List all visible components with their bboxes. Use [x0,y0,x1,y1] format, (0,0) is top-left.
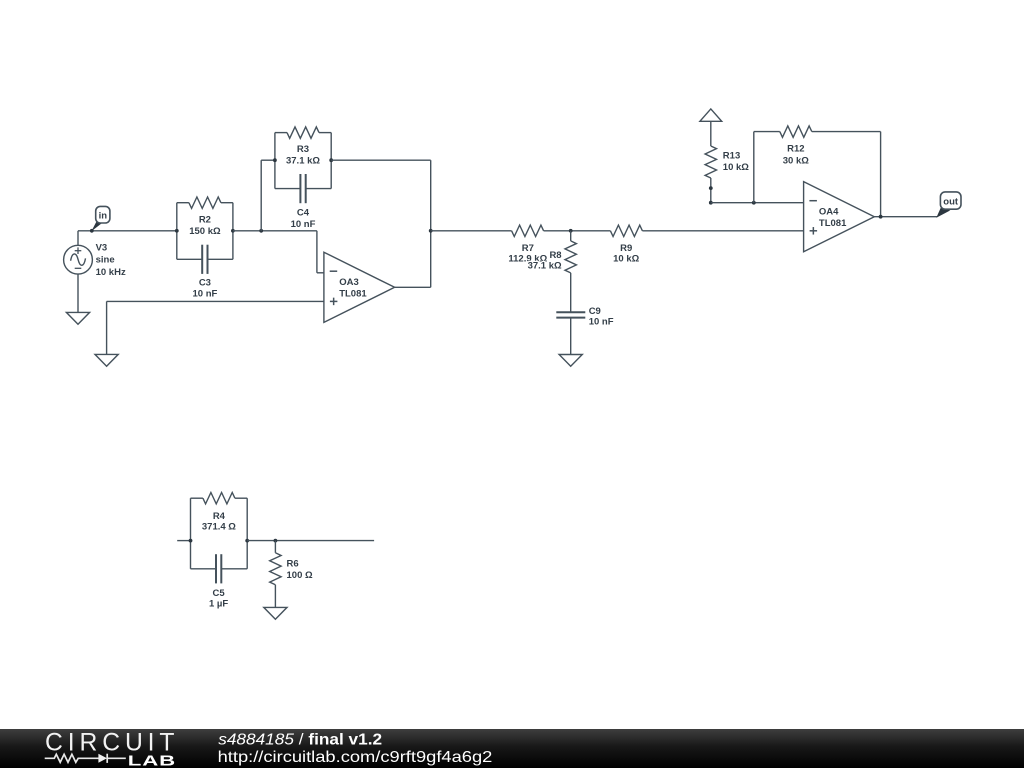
svg-text:out: out [943,196,959,207]
resistor R8 [565,231,576,312]
junction [709,201,713,205]
ground [95,354,118,366]
junction [329,158,333,162]
svg-text:10 kHz: 10 kHz [96,267,126,278]
wire [711,202,804,204]
svg-text:TL081: TL081 [819,218,847,229]
junction [259,229,263,233]
wire [874,216,937,218]
label R9 [613,243,639,265]
wire [261,159,275,161]
resistor R2 [177,197,233,259]
ground [264,607,287,619]
wire [812,131,881,133]
svg-text:LAB: LAB [128,753,176,768]
logo diode arrow [98,754,107,763]
svg-text:OA4: OA4 [819,207,839,218]
svg-text:R4: R4 [213,511,226,522]
svg-text:30 kΩ: 30 kΩ [783,155,809,166]
svg-text:R3: R3 [297,144,309,155]
junction [245,539,249,543]
resistor R4 [191,493,248,569]
label C4 [291,207,316,230]
node in flag [91,206,109,231]
voltage source V3 [64,245,93,274]
svg-text:R7: R7 [522,243,534,254]
wire [77,231,79,246]
resistor R3 [275,127,331,189]
capacitor C4 [275,174,331,203]
label R7 [508,243,547,265]
wire [544,230,611,232]
wire [233,230,317,232]
ground [66,312,89,324]
svg-text:s4884185 / final v1.2: s4884185 / final v1.2 [218,731,382,748]
junction [879,215,883,219]
junction [274,539,278,543]
junction [709,186,713,190]
label OA3 [339,277,367,299]
label R12 [783,144,809,167]
svg-text:R9: R9 [620,243,632,254]
junction [752,201,756,205]
capacitor C3 [177,245,233,274]
op-amp OA3 [324,252,395,322]
resistor R9 [610,225,642,236]
svg-text:TL081: TL081 [339,288,367,299]
wire [331,159,431,161]
wire [430,160,432,287]
footer title [218,731,382,748]
node out flag [936,192,961,218]
svg-text:sine: sine [96,255,115,266]
wire [177,540,190,542]
svg-text:R13: R13 [723,150,740,161]
label R8 [528,250,562,272]
svg-text:R12: R12 [787,144,804,155]
svg-text:37.1 kΩ: 37.1 kΩ [286,156,320,167]
wire [77,274,79,312]
resistor R12 [780,126,812,137]
junction [231,229,235,233]
junction [189,539,193,543]
label R2 [189,215,221,238]
label R6 [287,558,313,581]
junction [569,229,573,233]
label OA4 [819,207,847,229]
junction [273,158,277,162]
svg-text:10 kΩ: 10 kΩ [723,162,749,173]
label R3 [286,144,320,167]
ground [559,355,582,367]
svg-text:V3: V3 [96,242,108,253]
junction [429,229,433,233]
wire [247,540,374,542]
svg-text:37.1 kΩ: 37.1 kΩ [528,260,562,271]
resistor R6 [270,541,281,608]
label C3 [192,277,217,299]
wire [260,160,262,231]
svg-text:C9: C9 [589,306,601,317]
svg-text:150 kΩ: 150 kΩ [189,226,221,237]
svg-text:C5: C5 [213,588,226,599]
svg-text:C4: C4 [297,207,310,218]
wire [107,300,324,302]
svg-text:10 nF: 10 nF [589,317,614,328]
label R13 [723,150,749,173]
resistor R13 [705,146,716,203]
label C9 [589,306,614,327]
svg-text:http://circuitlab.com/c9rft9gf: http://circuitlab.com/c9rft9gf4a6g2 [218,748,493,765]
wire [395,286,431,288]
svg-text:R2: R2 [199,215,211,226]
op-amp OA4 [804,182,875,252]
svg-text:10 nF: 10 nF [192,289,217,300]
svg-text:R6: R6 [287,558,299,569]
label R4 [202,511,236,533]
logo resistor-diode [45,754,126,763]
svg-text:OA3: OA3 [339,277,359,288]
wire [316,231,318,273]
junction [175,229,179,233]
capacitor C9 [556,312,585,354]
label V3 value [96,242,126,278]
svg-text:371.4 Ω: 371.4 Ω [202,522,236,533]
wire [106,301,108,354]
resistor R7 [512,225,544,236]
wire [753,132,755,203]
junction [90,229,94,233]
footer url [218,748,493,765]
power flag V+ [700,109,722,146]
svg-text:10 kΩ: 10 kΩ [613,254,639,265]
wire [431,230,512,232]
svg-text:in: in [99,211,108,222]
wire [880,132,882,217]
wire [642,230,803,232]
wire [754,131,780,133]
label C5 [209,588,228,609]
svg-text:1 µF: 1 µF [209,599,228,610]
svg-text:C3: C3 [199,277,211,288]
svg-text:100 Ω: 100 Ω [287,570,313,581]
svg-text:R8: R8 [549,250,561,261]
svg-text:10 nF: 10 nF [291,219,316,230]
wire [78,230,177,232]
capacitor C5 [191,554,248,583]
